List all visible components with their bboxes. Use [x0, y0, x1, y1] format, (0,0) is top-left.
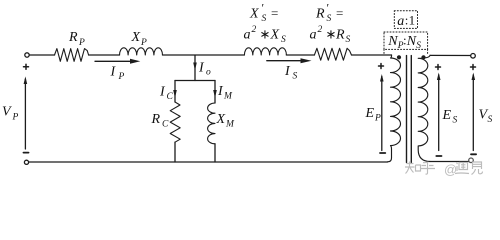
resistor R_P — [55, 49, 89, 62]
svg-text:′: ′ — [326, 1, 329, 15]
dashed box a:1 — [394, 11, 417, 29]
svg-text:R: R — [315, 7, 325, 22]
svg-text:I: I — [284, 64, 291, 79]
svg-text:C: C — [167, 92, 174, 102]
label a2*X_S — [244, 25, 287, 45]
svg-text:I: I — [110, 65, 117, 80]
V_P arrow — [24, 79, 26, 149]
svg-text:′: ′ — [261, 1, 264, 15]
svg-text:S: S — [293, 72, 298, 82]
terminal top-left — [25, 53, 29, 57]
minus V_S — [471, 153, 476, 155]
polarity dot primary — [397, 55, 401, 59]
wire — [174, 142, 176, 162]
svg-text:N: N — [406, 34, 417, 49]
svg-text:R: R — [68, 30, 78, 45]
plus V_S — [471, 66, 476, 68]
svg-text:@: @ — [444, 162, 457, 177]
label V_S — [479, 108, 493, 126]
E_P arrow — [381, 77, 383, 151]
label R'_S = — [315, 1, 343, 25]
plus E_S — [436, 66, 441, 68]
resistor R'_S — [314, 48, 351, 60]
svg-text:S: S — [262, 14, 267, 24]
label X_P — [131, 30, 148, 48]
svg-text:P: P — [374, 114, 381, 124]
svg-text:I: I — [198, 61, 205, 76]
label I_S — [284, 64, 298, 82]
svg-text:S: S — [281, 35, 286, 45]
svg-text:S: S — [346, 35, 351, 45]
svg-text:I: I — [217, 84, 224, 99]
wire — [29, 54, 54, 56]
label I_o — [198, 61, 211, 78]
minus V_P — [24, 152, 29, 154]
dashed stub left — [383, 49, 385, 55]
svg-text:X: X — [131, 30, 141, 45]
plus E_P — [379, 65, 384, 67]
label I_M — [217, 84, 233, 102]
svg-text:R: R — [335, 28, 345, 43]
svg-text:o: o — [206, 68, 211, 78]
I_o arrow wire — [194, 56, 196, 81]
svg-text:a: a — [397, 14, 404, 29]
svg-text:E: E — [442, 108, 452, 123]
svg-text:2: 2 — [318, 25, 323, 35]
svg-text:X: X — [216, 112, 226, 127]
svg-text:I: I — [159, 85, 166, 100]
plus V_P — [24, 66, 29, 68]
wire to transformer — [352, 54, 392, 56]
I_C arrow wire — [174, 81, 176, 103]
inductor X'_S — [244, 48, 286, 55]
label a:1 — [397, 13, 415, 30]
I_S arrow — [267, 60, 302, 62]
svg-text:1: 1 — [409, 13, 416, 28]
svg-text:S: S — [327, 14, 332, 24]
minus E_P — [380, 152, 385, 154]
label X'_S = — [249, 1, 278, 25]
wire secondary bottom — [430, 161, 469, 163]
svg-text:S: S — [416, 41, 421, 51]
secondary winding — [418, 55, 430, 161]
svg-text:M: M — [223, 92, 233, 102]
svg-text:P: P — [78, 38, 85, 48]
label R_C — [151, 112, 170, 130]
svg-text:=: = — [336, 6, 343, 21]
svg-text:N: N — [387, 34, 398, 49]
svg-text:X: X — [270, 28, 280, 43]
svg-text:M: M — [225, 120, 235, 130]
label I_P — [110, 65, 125, 83]
svg-text:R: R — [151, 112, 161, 127]
label R_P — [68, 30, 85, 48]
svg-text:P: P — [118, 72, 125, 82]
wire secondary top — [430, 54, 471, 56]
svg-text:=: = — [271, 6, 278, 21]
core line 1 — [406, 56, 408, 163]
wire — [286, 54, 314, 56]
svg-text:∗: ∗ — [260, 27, 271, 42]
svg-text:S: S — [488, 115, 493, 125]
label N_P:N_S — [387, 33, 421, 51]
V_S arrow — [472, 75, 474, 151]
E_S arrow — [438, 75, 440, 151]
svg-text:S: S — [453, 116, 458, 126]
svg-text:a: a — [244, 28, 251, 43]
dashed stub right — [427, 49, 429, 55]
watermark zhihu — [405, 162, 483, 175]
wire — [89, 54, 120, 56]
polarity dot secondary — [421, 55, 425, 59]
I_M arrow wire — [214, 81, 216, 104]
terminal bottom-left — [24, 160, 28, 164]
svg-text:V: V — [2, 105, 12, 120]
svg-text:∗: ∗ — [326, 27, 337, 42]
dashed box N_P:N_S — [384, 32, 428, 49]
wire — [214, 144, 216, 162]
inductor X_M — [208, 103, 215, 144]
shunt split bar — [175, 80, 215, 82]
label I_C — [159, 85, 174, 103]
svg-text:E: E — [365, 106, 375, 121]
label a2*R_S — [310, 25, 351, 45]
terminal top-right — [471, 54, 476, 59]
label E_P — [365, 106, 382, 124]
bottom wire primary — [29, 161, 388, 163]
label E_S — [442, 108, 458, 126]
I_P arrow — [95, 60, 132, 62]
resistor R_C — [170, 102, 180, 142]
svg-text:X: X — [249, 7, 259, 22]
inductor X_P — [119, 48, 162, 55]
minus E_S — [436, 155, 441, 157]
primary winding — [388, 55, 401, 162]
svg-text:P: P — [140, 38, 147, 48]
core line 2 — [410, 56, 412, 163]
terminal bottom-right — [469, 158, 474, 163]
wire with node — [163, 54, 245, 56]
svg-text:2: 2 — [252, 25, 257, 35]
label V_P — [2, 105, 19, 123]
svg-text:C: C — [162, 120, 169, 130]
svg-text:a: a — [310, 28, 317, 43]
label X_M — [216, 112, 236, 130]
svg-text:P: P — [12, 113, 19, 123]
